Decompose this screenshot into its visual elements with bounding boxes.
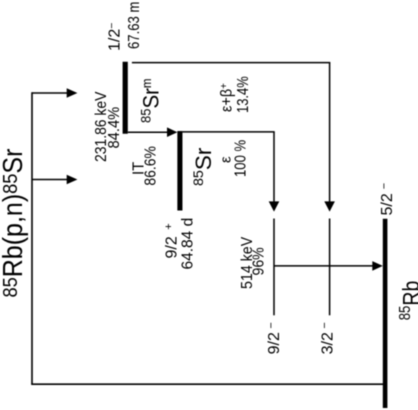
level Rb 3/2- — [329, 219, 331, 316]
level Rb ground (thick) — [383, 219, 388, 408]
wire Sr top horizontal — [182, 131, 274, 133]
wire bracket vertical — [31, 92, 33, 384]
level 85Sr (thick) — [177, 131, 182, 211]
svg-text:13.4%: 13.4% — [235, 76, 253, 113]
arrow e+b drop — [329, 63, 331, 202]
arrow IT transition — [128, 131, 168, 133]
svg-text:84.4%: 84.4% — [105, 106, 123, 148]
arrow gamma 514 — [274, 265, 373, 267]
wire bottom horizontal — [31, 383, 383, 385]
level Rb 9/2- — [273, 219, 275, 316]
arrow feed upper — [32, 92, 67, 94]
svg-text:85Rb(p,n)85Sr: 85Rb(p,n)85Sr — [0, 148, 28, 297]
wire Srm top horizontal — [132, 62, 330, 64]
arrow feed lower — [32, 179, 67, 181]
svg-text:67.63 m: 67.63 m — [126, 2, 143, 49]
arrow e drop — [273, 132, 275, 202]
svg-text:100 %: 100 % — [232, 140, 249, 177]
svg-text:86.6%: 86.6% — [141, 146, 159, 185]
svg-text:64.84 d: 64.84 d — [179, 218, 196, 270]
level 85Srm (thick) — [123, 62, 128, 134]
svg-text:96%: 96% — [250, 247, 268, 275]
